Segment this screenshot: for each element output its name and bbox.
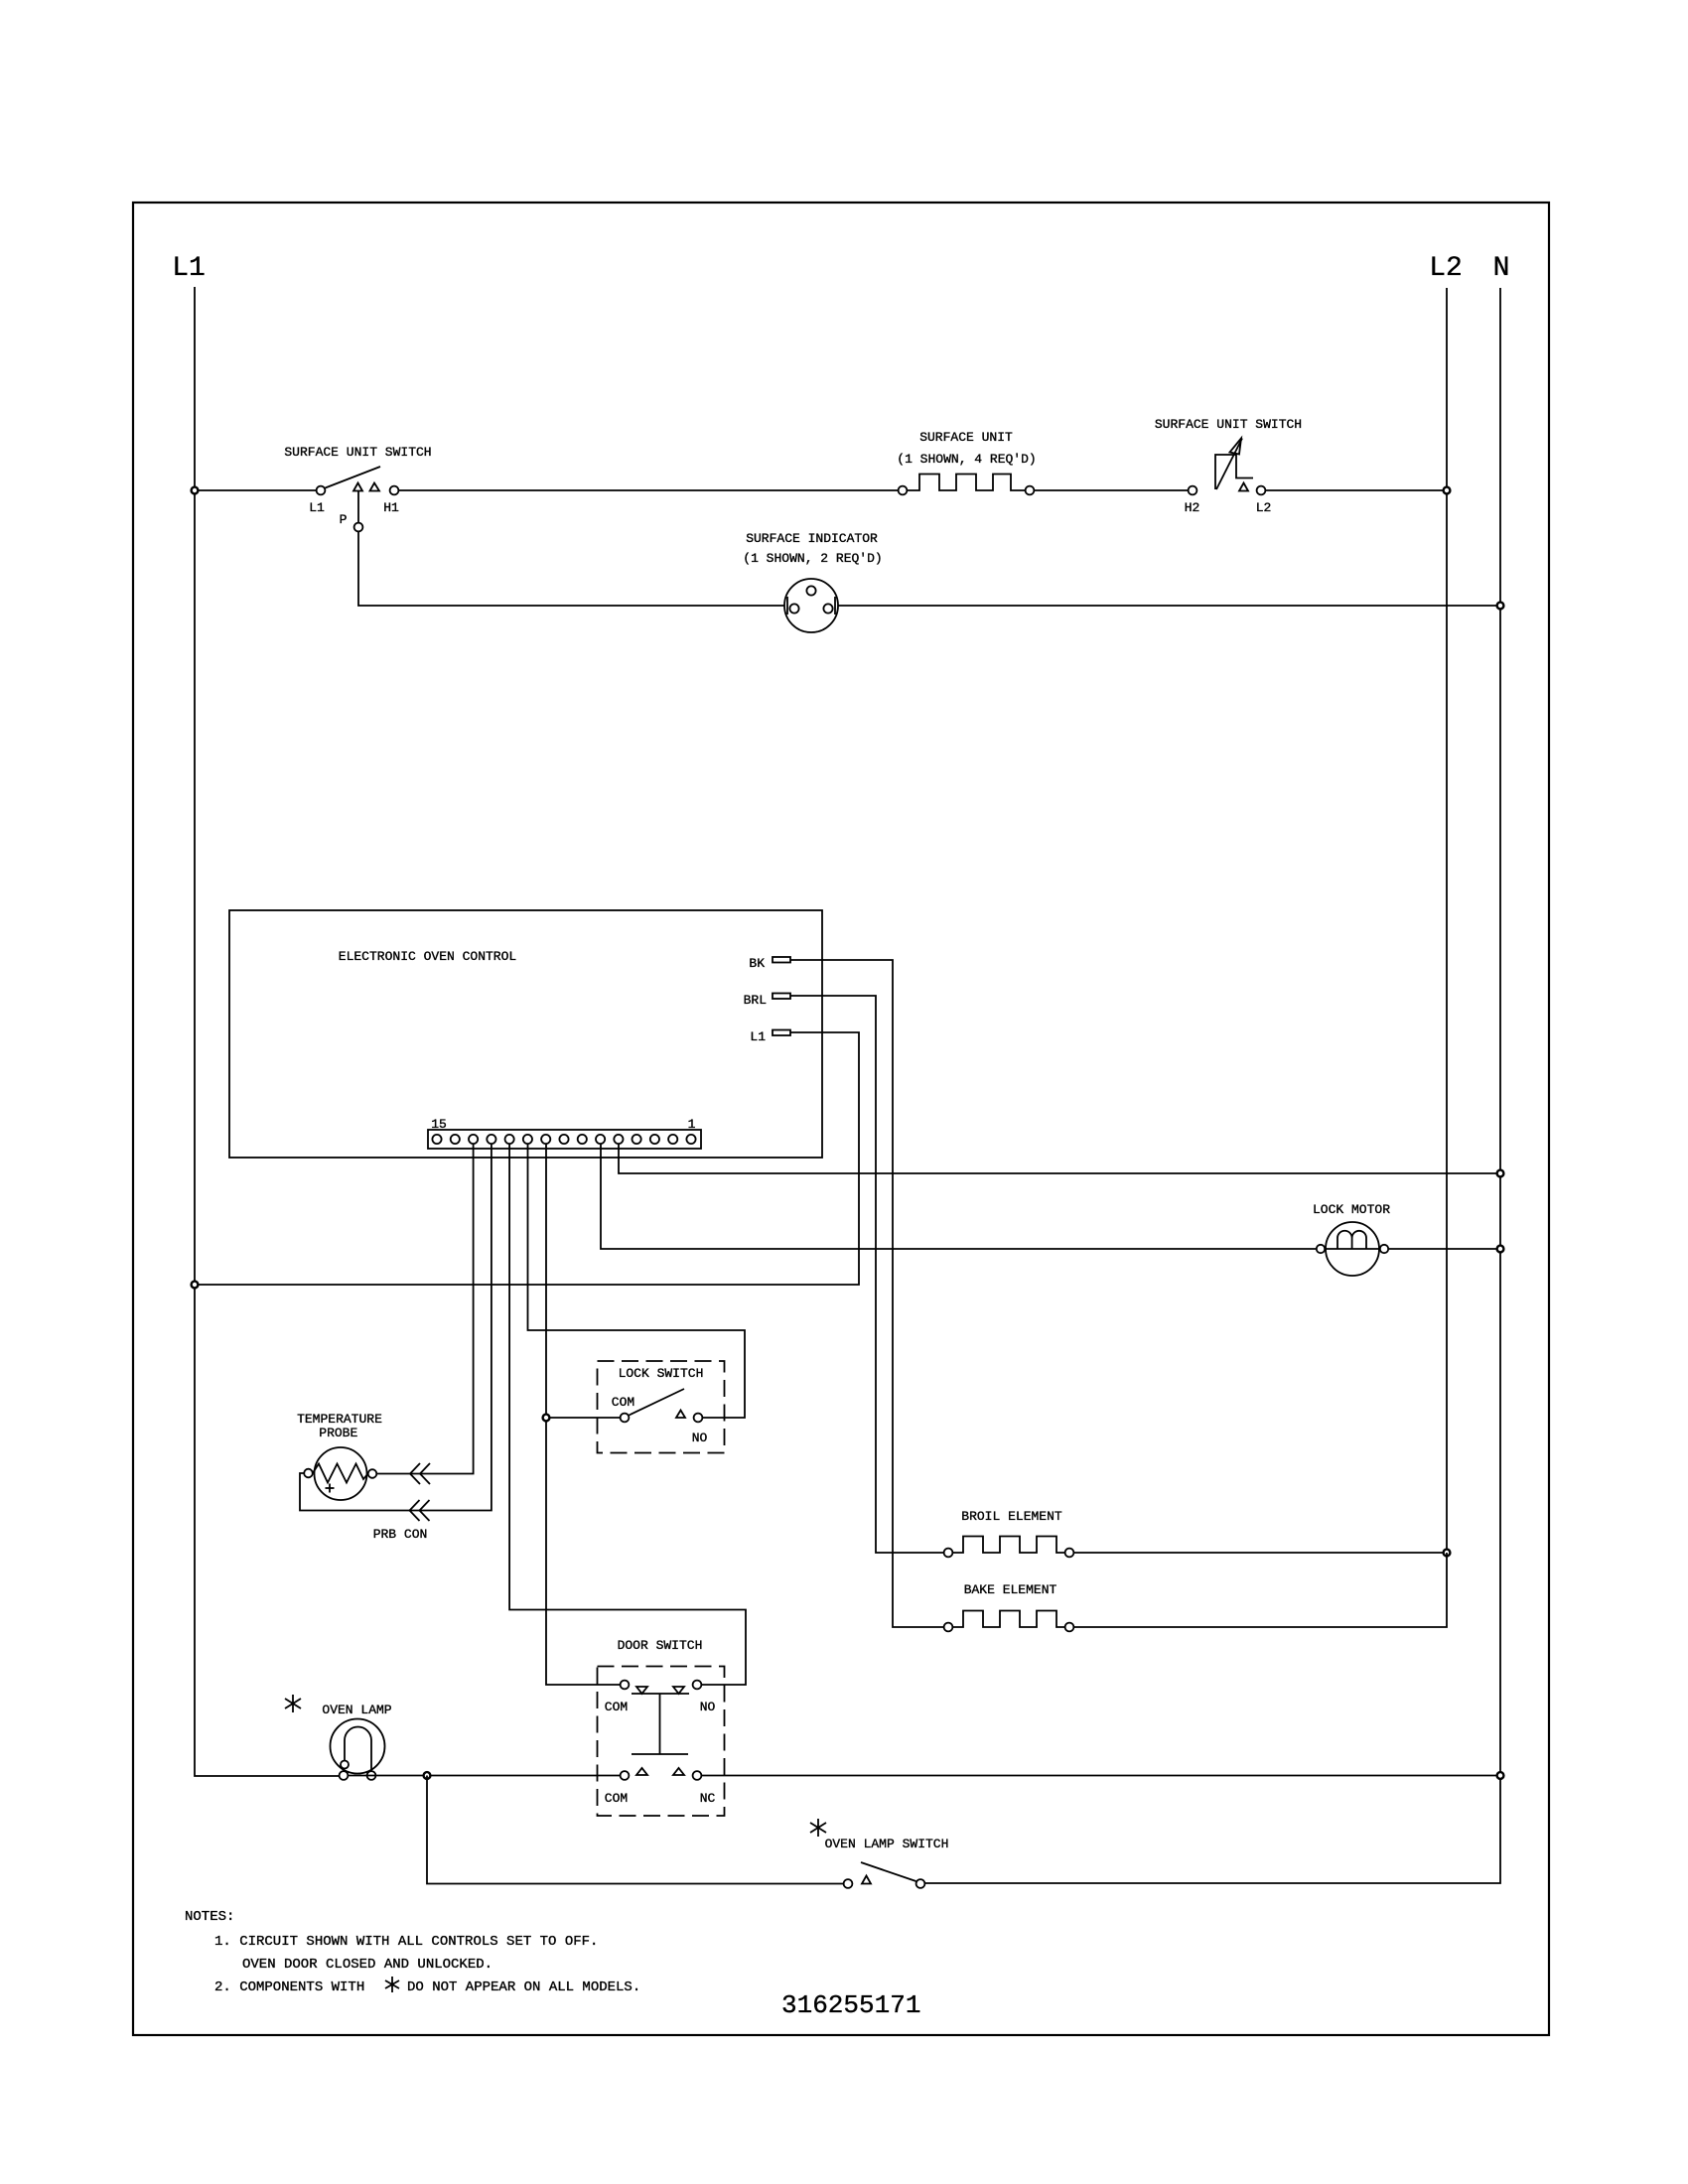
svg-text:NC: NC xyxy=(700,1791,716,1806)
junction lamp row xyxy=(424,1772,431,1779)
svg-text:BROIL ELEMENT: BROIL ELEMENT xyxy=(961,1509,1062,1524)
wire pin10 to lock switch NO xyxy=(528,1144,746,1418)
svg-text:P: P xyxy=(340,512,348,527)
wire pin5 to N rail xyxy=(619,1144,1500,1173)
junction door N xyxy=(1497,1772,1504,1779)
wire N rail xyxy=(925,288,1501,1883)
svg-text:DO NOT APPEAR ON ALL MODELS.: DO NOT APPEAR ON ALL MODELS. xyxy=(407,1979,640,1995)
door switch S4 xyxy=(598,1638,725,1816)
svg-text:2. COMPONENTS WITH: 2. COMPONENTS WITH xyxy=(214,1979,364,1995)
wire lock motor to N rail xyxy=(1388,1248,1500,1250)
junction top row L1 xyxy=(192,487,199,494)
svg-text:L1: L1 xyxy=(172,253,206,284)
junction broil L2 xyxy=(1444,1550,1451,1557)
svg-text:COM: COM xyxy=(605,1791,628,1806)
svg-text:NOTES:: NOTES: xyxy=(185,1909,234,1925)
svg-text:BAKE ELEMENT: BAKE ELEMENT xyxy=(964,1582,1057,1597)
terminal BRL xyxy=(744,993,790,1008)
svg-text:316255171: 316255171 xyxy=(781,1990,920,2020)
wire L2 rail xyxy=(1446,288,1448,1553)
junction lock motor N xyxy=(1497,1246,1504,1253)
svg-text:LOCK MOTOR: LOCK MOTOR xyxy=(1313,1202,1390,1217)
junction top row L2 xyxy=(1444,487,1451,494)
wire door switch NC to N rail xyxy=(702,1775,1501,1777)
wire pin12 to probe return xyxy=(300,1144,492,1511)
svg-text:OVEN LAMP: OVEN LAMP xyxy=(322,1703,391,1717)
wire pin6 to lock motor xyxy=(601,1144,1317,1249)
svg-text:BK: BK xyxy=(749,956,765,971)
svg-text:L2: L2 xyxy=(1429,253,1463,284)
probe connector chevrons bottom xyxy=(373,1500,430,1542)
svg-text:COM: COM xyxy=(605,1700,628,1714)
terminal BK xyxy=(749,956,790,971)
svg-text:H1: H1 xyxy=(383,500,399,515)
svg-text:SURFACE UNIT SWITCH: SURFACE UNIT SWITCH xyxy=(284,445,431,460)
wire BRL to broil element xyxy=(790,996,944,1553)
wire bake to L2 junction xyxy=(1074,1553,1448,1627)
node L2 xyxy=(1429,253,1463,284)
wire H1 to surface unit xyxy=(399,489,899,491)
svg-text:15: 15 xyxy=(431,1117,447,1132)
svg-text:L1: L1 xyxy=(309,500,325,515)
svg-text:LOCK SWITCH: LOCK SWITCH xyxy=(619,1366,704,1381)
oven lamp DS1 xyxy=(322,1703,391,1780)
svg-text:PROBE: PROBE xyxy=(319,1426,357,1440)
wire L1 terminal to L1 rail xyxy=(195,1032,859,1285)
svg-text:OVEN DOOR CLOSED AND UNLOCKED.: OVEN DOOR CLOSED AND UNLOCKED. xyxy=(242,1957,492,1973)
wire surface unit to H2 xyxy=(1035,489,1189,491)
node N xyxy=(1493,253,1510,284)
svg-text:SURFACE INDICATOR: SURFACE INDICATOR xyxy=(746,531,878,546)
wire lamp row to door COM xyxy=(349,1775,621,1777)
broil element xyxy=(944,1509,1074,1557)
svg-text:L1: L1 xyxy=(750,1029,766,1044)
lock motor M1 xyxy=(1313,1202,1390,1276)
svg-text:BRL: BRL xyxy=(744,993,767,1008)
svg-text:H2: H2 xyxy=(1185,500,1200,515)
svg-text:TEMPERATURE: TEMPERATURE xyxy=(297,1412,382,1427)
wire L2 contact to L2 rail xyxy=(1266,489,1448,491)
svg-text:L2: L2 xyxy=(1256,500,1272,515)
electronic oven control box U1 xyxy=(229,910,822,1158)
svg-text:N: N xyxy=(1493,253,1510,284)
junction indicator N xyxy=(1497,603,1504,610)
svg-text:(1 SHOWN, 4 REQ'D): (1 SHOWN, 4 REQ'D) xyxy=(897,452,1036,467)
junction L1 rail EOC row xyxy=(192,1282,199,1289)
svg-text:1. CIRCUIT SHOWN WITH ALL CON: 1. CIRCUIT SHOWN WITH ALL CONTROLS SET T… xyxy=(214,1934,598,1950)
wire lamp junction to bottom row xyxy=(427,1776,844,1884)
junction pin5 N xyxy=(1497,1170,1504,1177)
svg-text:NO: NO xyxy=(692,1431,708,1445)
terminal L1 of EOC xyxy=(750,1029,790,1044)
asterisk oven lamp xyxy=(285,1695,301,1712)
surface indicator lamp xyxy=(743,531,882,632)
svg-text:NO: NO xyxy=(700,1700,716,1714)
wire pin13 to probe xyxy=(377,1144,474,1474)
wire indicator to N rail xyxy=(838,605,1500,607)
wire pin11 to door switch NO xyxy=(509,1144,746,1685)
connector J1 15-pin xyxy=(428,1117,701,1149)
wire broil to L2 rail xyxy=(1074,1552,1448,1554)
lock switch S3 xyxy=(598,1361,725,1453)
wire pin9 to lock switch COM xyxy=(546,1144,621,1685)
svg-text:OVEN LAMP SWITCH: OVEN LAMP SWITCH xyxy=(825,1837,949,1851)
svg-text:(1 SHOWN, 2 REQ'D): (1 SHOWN, 2 REQ'D) xyxy=(743,551,882,566)
temperature probe RT1 xyxy=(297,1412,382,1500)
surface unit heating element xyxy=(897,430,1036,494)
svg-text:PRB CON: PRB CON xyxy=(373,1527,428,1542)
svg-text:COM: COM xyxy=(612,1395,634,1410)
svg-text:1: 1 xyxy=(688,1117,696,1132)
svg-text:SURFACE UNIT SWITCH: SURFACE UNIT SWITCH xyxy=(1155,417,1302,432)
surface unit switch S1 xyxy=(284,445,431,531)
node L1 xyxy=(172,253,206,284)
junction pin9 lock switch xyxy=(543,1415,550,1422)
svg-text:DOOR SWITCH: DOOR SWITCH xyxy=(618,1638,703,1653)
oven lamp switch S5 xyxy=(825,1837,949,1888)
notes text xyxy=(185,1909,640,1995)
asterisk oven lamp switch xyxy=(810,1819,826,1837)
svg-text:ELECTRONIC OVEN CONTROL: ELECTRONIC OVEN CONTROL xyxy=(339,949,516,964)
surface unit switch S2 xyxy=(1155,417,1302,515)
wire top row L1 to switch xyxy=(195,489,317,491)
wire BK to bake element xyxy=(790,960,944,1627)
bake element xyxy=(944,1582,1074,1631)
wire L1 rail xyxy=(195,287,340,1776)
probe connector chevrons top xyxy=(410,1463,430,1484)
asterisk note 2 xyxy=(385,1977,399,1992)
svg-text:SURFACE UNIT: SURFACE UNIT xyxy=(919,430,1013,445)
wire P drop to indicator row xyxy=(357,491,359,523)
